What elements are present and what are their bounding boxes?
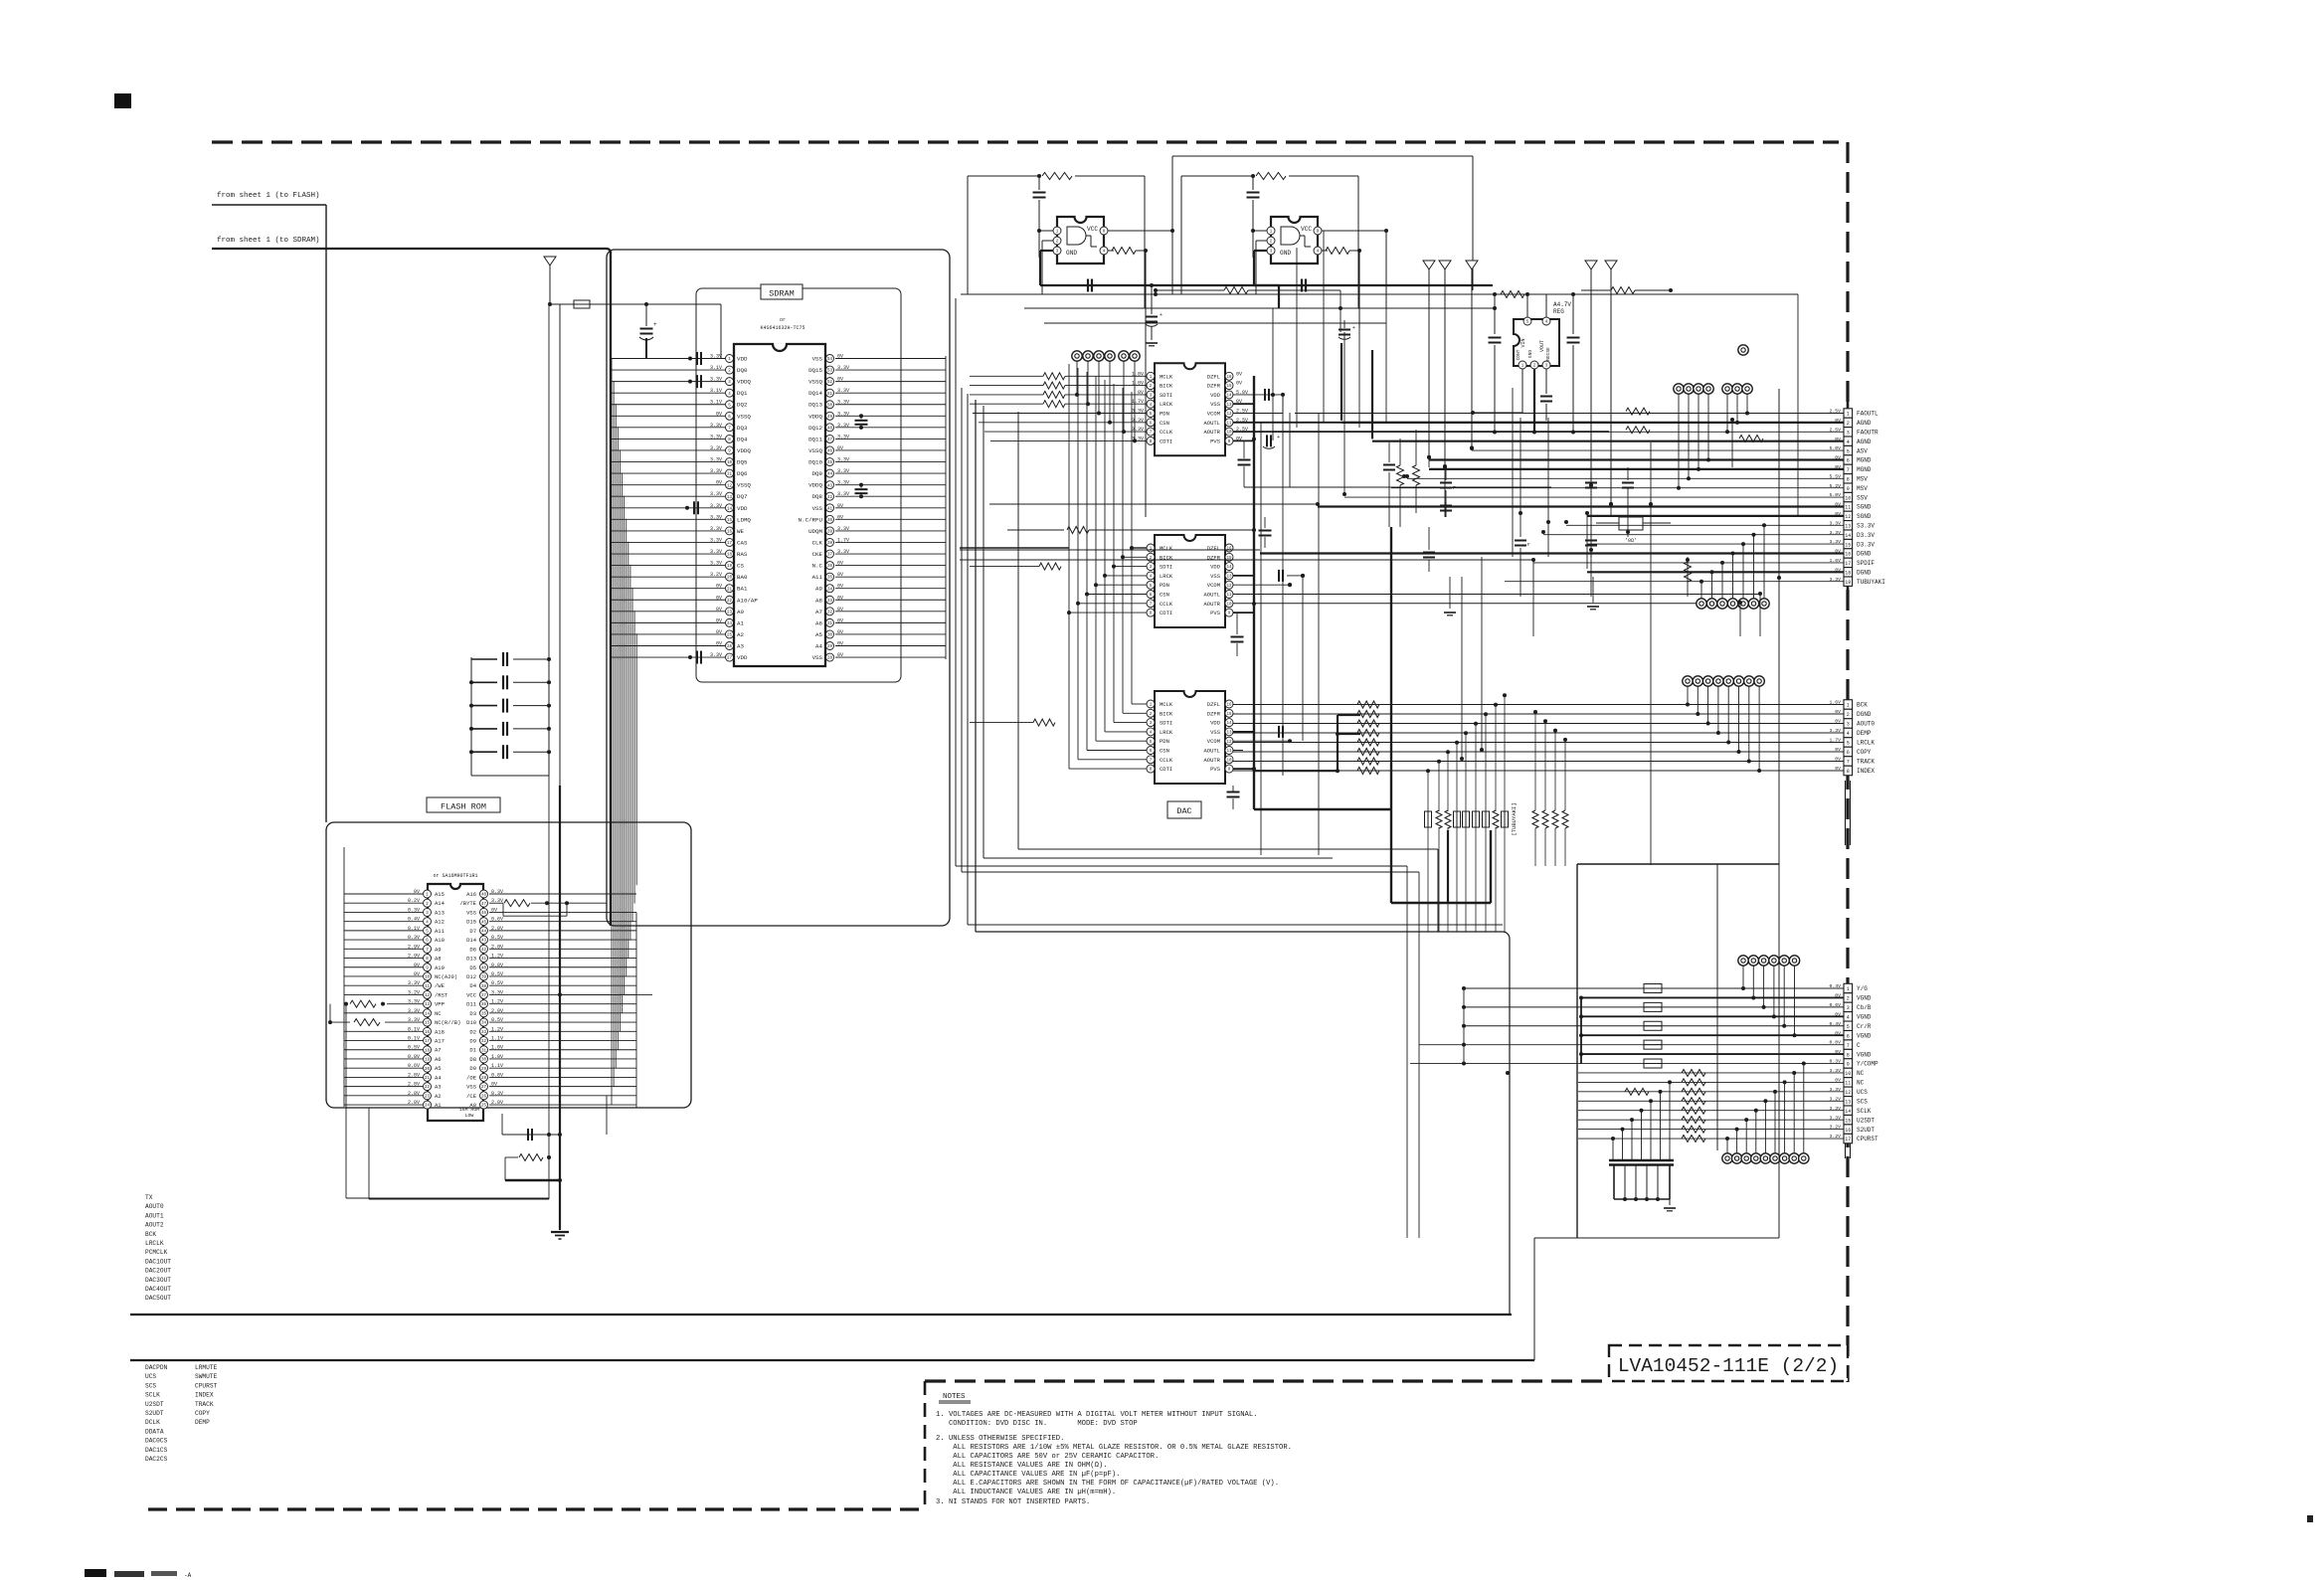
SDRAM pin 34 A9 wire: [835, 588, 946, 590]
SDRAM pin 16 WE wire: [611, 530, 725, 532]
wire FAOUTL: [1295, 413, 1844, 415]
connector CN? pin 11 SGND: [1844, 502, 1853, 511]
wire DAC1 aoutl: [1233, 422, 1609, 424]
svg-text:AOUTR: AOUTR: [1203, 757, 1220, 764]
SDRAM pin 41 VSS wire: [835, 507, 946, 509]
wire agnd thick stub: [1341, 343, 1342, 421]
svg-text:VCOM: VCOM: [1207, 411, 1220, 418]
svg-text:VSS: VSS: [812, 356, 823, 363]
svg-text:3.3V: 3.3V: [408, 1008, 420, 1014]
svg-text:28: 28: [827, 657, 833, 661]
svg-text:2.0V: 2.0V: [491, 926, 503, 932]
FLASH pin 7 A9 wire: [344, 948, 423, 950]
svg-text:12: 12: [1845, 1090, 1851, 1096]
resistor R top mesh2: [1611, 287, 1635, 294]
svg-text:3.3V: 3.3V: [837, 388, 849, 394]
svg-text:12: 12: [425, 994, 431, 998]
svg-text:1.1V: 1.1V: [491, 1036, 503, 1042]
svg-text:16: 16: [1845, 1128, 1851, 1134]
svg-text:'0Ω': '0Ω': [1625, 538, 1637, 544]
svg-text:A7: A7: [435, 1047, 442, 1054]
svg-text:AOUTL: AOUTL: [1203, 748, 1220, 755]
FLASH pin 13 VPP wire: [387, 1003, 423, 1005]
svg-text:3: 3: [1847, 431, 1850, 437]
svg-text:SWMUTE: SWMUTE: [195, 1373, 218, 1380]
SDRAM pin 22 A10/AP wire: [611, 599, 725, 601]
connector CN? pin 1 FAOUTL: [1844, 409, 1853, 418]
svg-text:33: 33: [827, 600, 833, 604]
connector CN3 bottom stub: [1845, 1143, 1847, 1158]
wire VGND: [1581, 996, 1844, 998]
svg-text:0V: 0V: [1236, 381, 1242, 387]
svg-text:10: 10: [1226, 603, 1232, 607]
FLASH pin 12 /RST wire: [344, 993, 423, 995]
wire DAC1 aoutr: [1233, 431, 1609, 433]
svg-text:VSS: VSS: [812, 654, 823, 661]
wire C: [1419, 1044, 1844, 1046]
svg-text:VDD: VDD: [737, 654, 748, 661]
svg-text:2: 2: [1847, 421, 1850, 427]
svg-text:NC: NC: [1857, 1080, 1865, 1087]
SDRAM label box: [761, 284, 803, 299]
wire video rows left hook: [1463, 988, 1465, 1064]
big box right edge: [1509, 939, 1511, 1315]
NAND pin 3: [1053, 247, 1061, 255]
wire video thick hook: [1580, 997, 1582, 1064]
wire vertical to FLASH ROM block: [325, 205, 327, 822]
NAND gate symbol: [1281, 227, 1300, 245]
svg-text:7: 7: [1847, 760, 1850, 766]
svg-text:1.2V: 1.2V: [491, 1026, 503, 1032]
svg-text:12: 12: [1845, 514, 1851, 520]
svg-text:U2SDT: U2SDT: [145, 1401, 164, 1408]
extra mesh verticals: [1260, 422, 1262, 855]
svg-text:3: 3: [1847, 1005, 1850, 1011]
svg-text:BA0: BA0: [737, 574, 748, 581]
DAC3 pin 6 CSN: [1147, 747, 1155, 755]
wire DAC2 mclk long: [960, 547, 1069, 549]
svg-text:D3: D3: [469, 1010, 476, 1017]
FLASH pin 47 /BYTE wire: [489, 902, 503, 904]
svg-text:1.0V: 1.0V: [491, 1054, 503, 1060]
svg-text:INDEX: INDEX: [1857, 768, 1875, 775]
svg-text:DAC1CS: DAC1CS: [145, 1447, 168, 1454]
svg-text:21: 21: [425, 1077, 431, 1081]
svg-text:A9: A9: [815, 586, 822, 593]
svg-text:50: 50: [827, 404, 833, 408]
svg-text:2.8V: 2.8V: [408, 1082, 420, 1088]
svg-text:3: 3: [1847, 722, 1850, 728]
svg-text:VSSQ: VSSQ: [737, 482, 751, 489]
svg-text:ALL RESISTANCE VALUES ARE IN O: ALL RESISTANCE VALUES ARE IN OHM(Ω).: [936, 1462, 1108, 1470]
svg-text:0V: 0V: [837, 514, 843, 520]
test point group A: [1674, 384, 1684, 394]
svg-text:16: 16: [425, 1031, 431, 1035]
DAC2 pin 2 BICK: [1147, 553, 1155, 561]
SDRAM right capacitor C VDDQ lower: [860, 485, 862, 488]
svg-text:1.7V: 1.7V: [837, 537, 849, 543]
svg-text:D4: D4: [469, 982, 476, 989]
SDRAM pin 14 VDD wire: [611, 507, 725, 509]
svg-text:RAS: RAS: [737, 551, 748, 558]
svg-text:DQ5: DQ5: [737, 459, 748, 466]
dashed frame bottom edge right part: [925, 1379, 1609, 1382]
DAC1 pin 10 AOUTR: [1225, 428, 1233, 436]
svg-text:9: 9: [1847, 1062, 1850, 1068]
svg-text:0.5V: 0.5V: [491, 980, 503, 986]
svg-text:or SA16M90TF1R1: or SA16M90TF1R1: [433, 873, 477, 879]
svg-text:DAC0CS: DAC0CS: [145, 1438, 168, 1445]
wire Cb/B: [1464, 1006, 1844, 1008]
svg-text:GND: GND: [1527, 350, 1533, 358]
svg-text:1.1V: 1.1V: [491, 1063, 503, 1069]
bus L2: [961, 388, 963, 872]
svg-text:VSSQ: VSSQ: [737, 413, 751, 420]
svg-text:MCLK: MCLK: [1160, 701, 1173, 708]
wire S2UDT: [1578, 1129, 1844, 1131]
svg-text:A15: A15: [435, 891, 445, 898]
svg-text:A3: A3: [435, 1084, 442, 1091]
FLASH pin 1 A15 wire: [344, 893, 423, 895]
wire nand pin2: [1042, 240, 1053, 242]
svg-text:12: 12: [1226, 741, 1232, 745]
capacitor C+ DAC1 pvs: [1233, 439, 1254, 441]
capacitor cluster mesh: [1388, 442, 1390, 462]
svg-text:TRACK: TRACK: [195, 1401, 214, 1408]
wire SCS: [1578, 1100, 1844, 1102]
wire DAC2 aoutl: [1233, 594, 1760, 596]
capacitor bank box: [470, 657, 472, 776]
svg-text:17: 17: [1845, 561, 1851, 567]
svg-text:1.0V: 1.0V: [491, 1045, 503, 1051]
SDRAM pin 50 DQ13 wire: [835, 404, 946, 406]
wire DAC2 pvs: [1233, 612, 1254, 614]
svg-text:47: 47: [827, 439, 833, 442]
SDRAM pin 39 UDQM wire: [835, 530, 946, 532]
connector CN? pin 16 S2UDT: [1844, 1125, 1853, 1134]
wire top right to reg: [1573, 293, 1641, 295]
resistor R mesh2: [1626, 427, 1650, 434]
SDRAM pin 3 VDDQ wire: [611, 381, 725, 383]
svg-text:CCLK: CCLK: [1160, 601, 1173, 608]
svg-text:27: 27: [481, 1086, 487, 1090]
test point row above connector3: [1738, 956, 1748, 966]
SDRAM pin 10 DQ5 wire: [611, 461, 725, 463]
NAND IC body: [1271, 217, 1318, 263]
svg-text:PVS: PVS: [1210, 438, 1221, 444]
FLASH pin 14 NC wire: [344, 1012, 423, 1014]
svg-text:DZFL: DZFL: [1207, 701, 1220, 708]
thick jogs DAC3 outputs: [1254, 770, 1338, 772]
jumper 0ohm: [1619, 517, 1643, 530]
DAC3 pin 3 SDTI: [1147, 719, 1155, 727]
svg-text:/CE: /CE: [466, 1093, 477, 1100]
SDRAM pin 53 DQ15 wire: [835, 369, 946, 371]
svg-text:3.3V: 3.3V: [710, 468, 722, 474]
resistor R vertical mesh: [1685, 562, 1692, 582]
svg-text:8: 8: [1847, 477, 1850, 483]
svg-text:14: 14: [1226, 566, 1232, 570]
svg-text:0.3V: 0.3V: [408, 907, 420, 913]
DAC3 pin 4 LRCK: [1147, 728, 1155, 736]
svg-text:DZFR: DZFR: [1207, 710, 1221, 717]
resistor R DAC3 sdti: [1033, 719, 1055, 726]
svg-text:N.C/RFU: N.C/RFU: [799, 516, 823, 523]
wire video left verticals: [1406, 866, 1408, 1238]
svg-text:DEMP: DEMP: [1857, 730, 1872, 737]
svg-text:25: 25: [481, 1105, 487, 1109]
svg-text:D7: D7: [469, 928, 476, 935]
svg-text:26: 26: [727, 645, 733, 649]
svg-text:U2SDT: U2SDT: [1857, 1117, 1875, 1124]
svg-text:AOUT1: AOUT1: [145, 1212, 164, 1219]
DAC3 pin 15 DZFR: [1225, 709, 1233, 717]
wire VCC to bus: [560, 993, 652, 995]
svg-text:A1: A1: [737, 619, 744, 626]
svg-text:35: 35: [481, 1012, 487, 1016]
mesh junction dots: [1271, 393, 1275, 397]
FLASH ROM outer bus box: [326, 822, 691, 1108]
capacitor C reg left: [1494, 294, 1496, 334]
svg-text:10: 10: [727, 461, 733, 465]
svg-text:VSS: VSS: [466, 1084, 477, 1091]
regulator IC body: [1514, 319, 1559, 366]
test point row above DAC1: [1072, 351, 1082, 361]
svg-text:/OE: /OE: [466, 1074, 477, 1081]
DAC2 pin 11 AOUTL: [1225, 591, 1233, 599]
svg-text:WE: WE: [737, 528, 744, 535]
antenna symbol: [1423, 261, 1435, 269]
SDRAM pin 29 A4 wire: [835, 645, 946, 647]
svg-text:0V: 0V: [837, 584, 843, 590]
capacitor C mesh d: [1627, 467, 1629, 480]
svg-text:31: 31: [481, 1049, 487, 1053]
svg-text:SDTI: SDTI: [1160, 720, 1172, 727]
DAC IC DAC3 body: [1155, 691, 1225, 784]
transformer legs: [1613, 1164, 1615, 1199]
wire COPY: [1233, 751, 1844, 753]
svg-text:A4.7V: A4.7V: [1553, 301, 1571, 308]
svg-text:0V: 0V: [837, 629, 843, 635]
svg-text:0V: 0V: [837, 377, 843, 383]
svg-text:Y/G: Y/G: [1857, 985, 1868, 992]
SDRAM box left edge thick: [610, 252, 612, 926]
svg-text:7: 7: [1847, 467, 1850, 473]
svg-text:DAC: DAC: [1176, 806, 1191, 816]
svg-text:0V: 0V: [716, 411, 722, 417]
svg-text:ALL RESISTORS ARE 1/10W ±5% ME: ALL RESISTORS ARE 1/10W ±5% METAL GLAZE …: [936, 1444, 1292, 1452]
SDRAM pin 21 BA1 wire: [611, 588, 725, 590]
wire SSV: [1344, 496, 1844, 498]
connector CN? pin 2 DGND: [1844, 709, 1853, 719]
svg-text:18: 18: [727, 554, 733, 558]
dashed frame right edge: [1846, 142, 1849, 1382]
svg-text:A5: A5: [815, 631, 822, 638]
SDRAM pin 49 VDDQ wire: [835, 415, 946, 417]
svg-text:17: 17: [1845, 1137, 1851, 1142]
FLASH pin 2 A14 wire: [344, 902, 423, 904]
DAC2 pin 6 CSN: [1147, 591, 1155, 599]
svg-text:FAOUTL: FAOUTL: [1857, 411, 1878, 418]
connector CN? pin 7 C: [1844, 1040, 1853, 1049]
svg-text:3.3V: 3.3V: [710, 503, 722, 509]
DAC3 pin 5 PDN: [1147, 737, 1155, 745]
svg-text:18: 18: [1845, 571, 1851, 577]
svg-text:from sheet 1 (to SDRAM): from sheet 1 (to SDRAM): [217, 237, 320, 245]
wire antenna stem: [549, 265, 551, 304]
svg-text:42: 42: [827, 496, 833, 500]
SDRAM pin 9 VDDQ wire: [611, 449, 725, 451]
svg-text:18: 18: [425, 1049, 431, 1053]
wire LRCLK: [1233, 742, 1844, 744]
svg-text:ALL INDUCTANCE VALUES ARE IN µ: ALL INDUCTANCE VALUES ARE IN µH(m=mH).: [936, 1489, 1116, 1496]
wire reg vout stem: [1545, 294, 1547, 317]
svg-text:17: 17: [425, 1040, 431, 1044]
capacitor C flash bottom: [502, 1134, 560, 1136]
wires DAC1 control pins: [973, 413, 1147, 415]
capacitor C below DAC3: [1232, 786, 1234, 791]
svg-text:13: 13: [1845, 524, 1851, 530]
wire top mesh 2: [1024, 307, 1495, 309]
svg-text:35: 35: [827, 577, 833, 581]
svg-text:CDTI: CDTI: [1160, 766, 1172, 773]
svg-text:13: 13: [1845, 1099, 1851, 1105]
svg-text:29: 29: [481, 1068, 487, 1072]
svg-text:DAC3OUT: DAC3OUT: [145, 1277, 171, 1284]
NAND pin 2: [1053, 237, 1061, 245]
svg-text:52: 52: [827, 381, 833, 385]
svg-text:Y/COMP: Y/COMP: [1857, 1061, 1878, 1068]
svg-text:A6: A6: [435, 1056, 442, 1063]
svg-text:GND: GND: [1280, 250, 1291, 257]
capacitor C below DAC2: [1236, 613, 1238, 634]
svg-text:CAS: CAS: [737, 539, 748, 546]
svg-text:UDQM: UDQM: [808, 528, 822, 535]
stems test points DAC1: [1076, 361, 1078, 395]
svg-text:/RST: /RST: [435, 991, 448, 998]
capacitor C reg noise: [1545, 369, 1547, 394]
svg-text:16: 16: [1226, 376, 1232, 380]
svg-text:45: 45: [827, 461, 833, 465]
FLASH pin 40 D5 wire: [489, 966, 636, 968]
connector CN? pin 1 Y/G: [1844, 983, 1853, 992]
svg-text:43: 43: [827, 484, 833, 488]
svg-text:0.8V: 0.8V: [491, 1072, 503, 1078]
capacitor C mesh g: [1428, 527, 1430, 550]
FLASH pin 48 A16 wire: [489, 893, 636, 895]
svg-text:+: +: [653, 321, 657, 328]
wire BCK: [1233, 704, 1844, 706]
wire FAOUTR: [1295, 431, 1844, 433]
svg-text:36: 36: [827, 565, 833, 569]
svg-text:23: 23: [727, 611, 733, 614]
svg-text:GND: GND: [1066, 250, 1077, 257]
wire VGND: [1581, 1053, 1844, 1055]
resistor column video control lines: [1682, 1069, 1705, 1076]
connector CN? pin 16 DGND: [1844, 549, 1853, 558]
capacitor C mesh f: [1590, 517, 1592, 537]
svg-text:D0: D0: [469, 1065, 476, 1072]
capacitor C nand left: [1038, 176, 1040, 190]
svg-text:DZFL: DZFL: [1207, 373, 1220, 380]
svg-text:A4: A4: [435, 1074, 442, 1081]
svg-text:1.2V: 1.2V: [491, 999, 503, 1005]
DAC3 pin 9 PVS: [1225, 765, 1233, 773]
wire reg top: [1501, 291, 1524, 298]
svg-text:VDD: VDD: [1210, 720, 1221, 727]
SDRAM pin 44 DQ9 wire: [835, 472, 946, 474]
svg-text:INDEX: INDEX: [195, 1392, 214, 1399]
svg-text:SDTI: SDTI: [1160, 564, 1172, 571]
capacitor C DAC3 vss: [1233, 731, 1254, 733]
svg-text:/WE: /WE: [435, 982, 446, 989]
svg-text:47: 47: [481, 903, 487, 907]
wire MGND: [1429, 468, 1844, 470]
svg-text:13: 13: [1226, 732, 1232, 736]
resistor R RB: [354, 1019, 380, 1026]
FLASH pin 28 /OE wire: [489, 1076, 636, 1078]
SDRAM decoupling capacitor C left row27: [696, 651, 698, 664]
svg-text:3.3V: 3.3V: [710, 423, 722, 429]
resistor column conn2 rows: [1357, 701, 1379, 708]
stems test points A/B: [1678, 394, 1680, 488]
svg-text:0V: 0V: [837, 503, 843, 509]
svg-text:4: 4: [1847, 731, 1850, 737]
svg-text:8: 8: [1847, 769, 1850, 775]
svg-text:D10: D10: [466, 1019, 476, 1026]
svg-text:12: 12: [1226, 585, 1232, 589]
svg-text:CONT: CONT: [1516, 349, 1521, 360]
wire nand pin1: [1039, 230, 1053, 232]
svg-text:NOTES: NOTES: [943, 1393, 966, 1401]
DAC2 pin 15 DZFR: [1225, 553, 1233, 561]
regulator pin CONT: [1519, 361, 1526, 369]
ground symbol mesh a: [1449, 577, 1451, 609]
svg-text:A12: A12: [435, 919, 445, 926]
svg-text:PVS: PVS: [1210, 610, 1221, 616]
NAND pin 1: [1053, 227, 1061, 235]
bottom right box lower: [1534, 1237, 1779, 1239]
antenna symbol: [1466, 261, 1478, 269]
svg-text:17: 17: [727, 542, 733, 546]
svg-text:A4: A4: [815, 643, 822, 650]
svg-text:FLASH ROM: FLASH ROM: [441, 802, 486, 812]
bank capacitor C4: [471, 728, 497, 730]
FLASH pin 36 D11 wire: [489, 1003, 636, 1005]
svg-text:VGND: VGND: [1857, 1014, 1872, 1021]
svg-text:D13: D13: [466, 956, 476, 963]
connector CN? pin 4 AGND: [1844, 437, 1853, 445]
svg-text:14: 14: [1226, 722, 1232, 726]
svg-text:BCK: BCK: [145, 1231, 156, 1238]
svg-text:A10: A10: [435, 937, 445, 944]
wire nand2 gnd corner: [1278, 285, 1280, 308]
svg-text:15: 15: [727, 519, 733, 523]
DAC1 pin 13 VSS: [1225, 400, 1233, 408]
svg-text:AOUT2: AOUT2: [145, 1222, 164, 1229]
resistor R VPP: [350, 1000, 376, 1007]
svg-text:DQ2: DQ2: [737, 402, 748, 409]
bus line 2: [130, 1359, 1534, 1361]
svg-text:AOUTR: AOUTR: [1203, 429, 1220, 436]
connector CN? pin 2 AGND: [1844, 418, 1853, 427]
svg-text:TRACK: TRACK: [1857, 759, 1875, 766]
SDRAM pin 52 VSSQ wire: [835, 381, 946, 383]
svg-text:2: 2: [1847, 996, 1850, 1002]
wire Y/G: [1464, 987, 1844, 989]
wires DAC2 left staircase: [1132, 547, 1147, 549]
svg-text:3.3V: 3.3V: [837, 468, 849, 474]
